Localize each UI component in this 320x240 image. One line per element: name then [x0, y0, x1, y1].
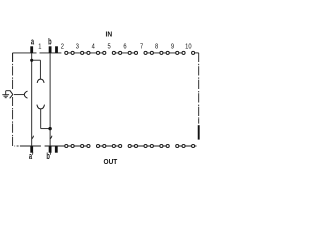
svg-text:9: 9 [171, 43, 175, 51]
svg-text:3: 3 [76, 43, 80, 51]
terminal pair 9 (top) [176, 51, 179, 54]
terminal pair 3' (bottom) [81, 144, 84, 147]
schematic: switched connector link strip with IN/OUT rails [0, 0, 200, 200]
wire bottom rail segment A' (to link 1' gap) [20, 145, 41, 147]
terminal pair 9' (bottom) [176, 144, 179, 147]
wire top rail segment F (pin 10 to right corner) [191, 52, 198, 54]
terminal pair 2' (bottom) [65, 144, 68, 147]
wire top rail segment C (pins 2-4 linked) [65, 52, 106, 54]
terminal pin 10' (bottom) [192, 144, 195, 147]
wire bottom rail segment D' (pins 6'-8' linked) [128, 145, 169, 147]
wire bottom rail segment B' (contact b' through pins 2'-3') [45, 145, 91, 147]
terminal pair 6' (bottom) [128, 144, 131, 147]
svg-text:b′: b′ [46, 151, 51, 162]
terminal pair 5 (top) [112, 51, 115, 54]
terminal pair 3 (top) [81, 51, 84, 54]
contact b (top bar pair) [49, 46, 52, 52]
junction node on wire a [30, 59, 33, 62]
wedge contact onto left actuator [10, 90, 13, 98]
terminal pair 7' (bottom) [144, 144, 147, 147]
wire ground to wedge contact [6, 90, 10, 92]
contact a' (bottom bar) [30, 146, 33, 152]
spring hook on wire b' [50, 136, 52, 139]
svg-text:6: 6 [123, 43, 127, 51]
plug half (opens up) [37, 105, 45, 109]
svg-text:a′: a′ [29, 151, 34, 162]
wire wedge to fork contact [14, 94, 24, 96]
actuator slide bar left (dash-dot mechanical link) [12, 53, 14, 146]
svg-text:4: 4 [92, 43, 96, 51]
svg-text:5: 5 [107, 43, 111, 51]
terminal pair 4' (bottom) [96, 144, 99, 147]
wire plug lower stem [40, 109, 42, 129]
contact a (top bar) [30, 46, 33, 52]
svg-text:b: b [48, 36, 52, 47]
junction node on wire b [48, 127, 51, 130]
wire from contact b down to contact b' [49, 53, 51, 146]
terminal pair 6 (top) [128, 51, 131, 54]
wire top rail segment A (left corner to link 1 gap) [13, 52, 37, 54]
wire top rail segment E (pins 7-9 linked) [144, 52, 185, 54]
svg-text:OUT: OUT [104, 159, 119, 166]
wire from contact a down to contact a' [31, 53, 33, 146]
actuator slide bar right (dash-dot mechanical link) [198, 53, 200, 124]
wire branch from node to socket stem [32, 59, 41, 61]
terminal pair 2 (top) [65, 51, 68, 54]
wire bottom rail corner dash (dash-dot continuation) [13, 145, 16, 147]
terminal pair 5' (bottom) [112, 144, 115, 147]
terminal pair 7 (top) [144, 51, 147, 54]
terminal pin 10 (top) [192, 51, 195, 54]
svg-text:a: a [31, 36, 35, 47]
contact bar on right actuator [198, 125, 200, 139]
fork contact toward wire a (opens right) [24, 91, 27, 98]
wire bottom rail segment C' (pins 4'-5' linked) [96, 145, 122, 147]
svg-text:2: 2 [61, 43, 65, 51]
socket half (opens down) [37, 79, 44, 83]
terminal pair 4 (top) [96, 51, 99, 54]
wire elbow to wire b [41, 128, 50, 130]
svg-text:IN: IN [105, 31, 112, 38]
contact b' (bottom bar pair) [49, 146, 52, 152]
wire top rail segment B (link 1 to stub of link 2) [40, 52, 62, 54]
wire top rail segment D (pins 5-6 linked) [112, 52, 138, 54]
terminal pair 8 (top) [160, 51, 163, 54]
ground [2, 91, 9, 98]
svg-text:1: 1 [38, 43, 42, 51]
svg-text:8: 8 [155, 43, 159, 51]
wire bottom rail segment E' (pins 9'-10') [176, 145, 197, 147]
wire top rail left corner join [12, 53, 14, 62]
terminal pair 8' (bottom) [160, 144, 163, 147]
wire socket stem down [39, 60, 41, 79]
spring hook on wire a' [32, 136, 34, 139]
svg-text:10: 10 [185, 43, 192, 51]
svg-text:7: 7 [140, 43, 144, 51]
